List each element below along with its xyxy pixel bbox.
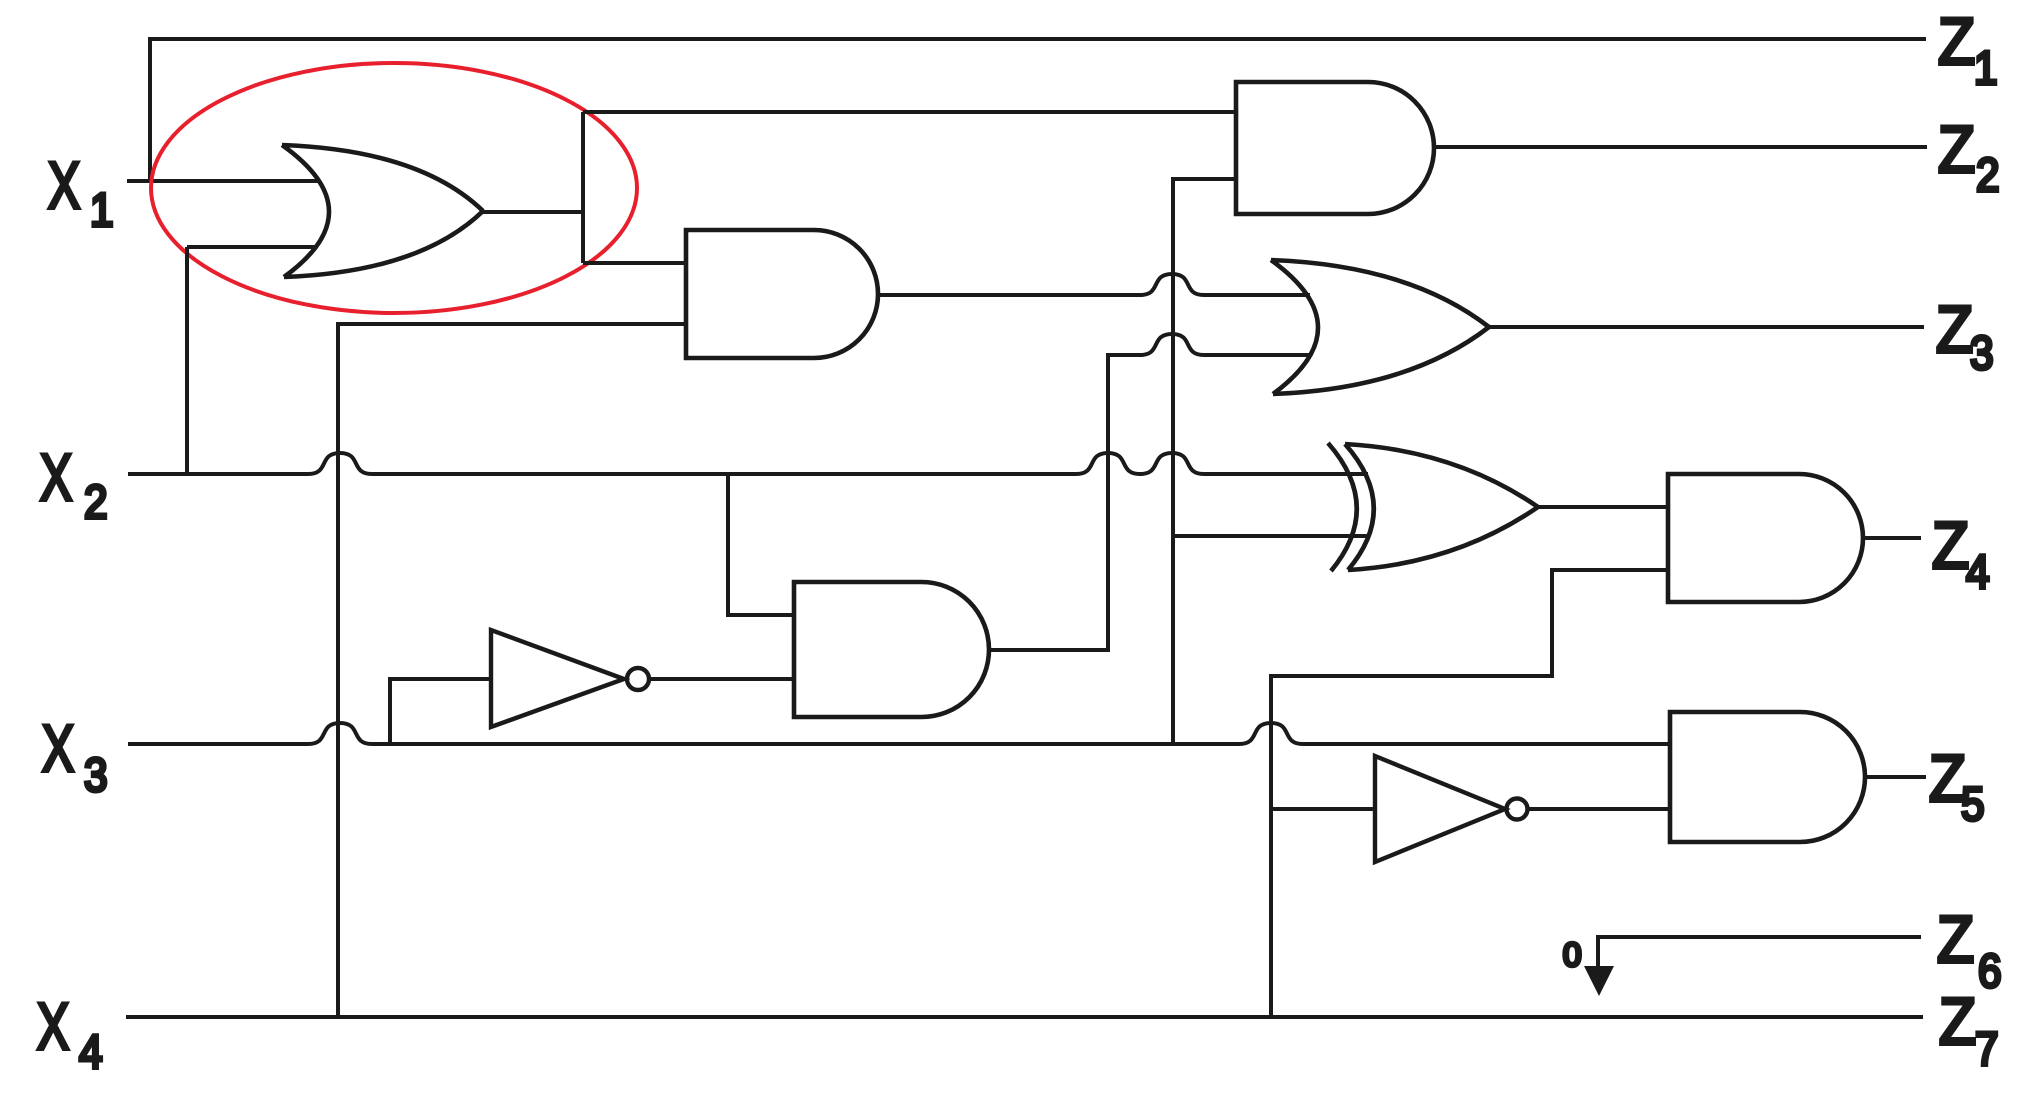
svg-text:X: X — [37, 991, 69, 1064]
svg-text:Z: Z — [1937, 904, 1974, 977]
wire AND1 output to Z2 — [1434, 145, 1927, 149]
svg-text:1: 1 — [90, 185, 114, 237]
label X3 — [42, 713, 74, 786]
svg-text:6: 6 — [1978, 946, 2002, 998]
svg-text:Z: Z — [1936, 294, 1973, 367]
wire XOR output to AND4 input 1 — [1538, 505, 1668, 509]
or-gate OR3 (output Z3) — [1271, 260, 1489, 394]
red highlight ellipse around OR1 — [151, 63, 637, 313]
wire NOT2 output to AND5 input 2 — [1528, 807, 1670, 811]
wire X3 rail with hops — [128, 723, 1670, 744]
wire X4 rail to Z7 — [126, 1015, 1923, 1019]
svg-text:X: X — [40, 442, 72, 515]
svg-text:Z: Z — [1932, 510, 1969, 583]
svg-text:X: X — [42, 713, 74, 786]
wire OR1 output to node — [483, 210, 583, 214]
wire NOT1 output to AND3 input 2 — [649, 677, 794, 681]
svg-text:4: 4 — [1966, 547, 1990, 599]
and-gate AND2 — [686, 230, 878, 358]
wire X2 branch up to OR1 input 2 — [187, 247, 317, 474]
wire X4 branch to NOT2 input — [1271, 807, 1375, 811]
svg-text:1: 1 — [1974, 43, 1998, 95]
wire X3 branch to XOR input 2 — [1173, 534, 1368, 538]
svg-text:3: 3 — [1970, 328, 1994, 380]
label X4 — [37, 991, 69, 1064]
xor-gate XOR1 — [1328, 443, 1538, 571]
label Z6 — [1937, 904, 1974, 977]
wire X2 rail with hops — [128, 453, 1368, 474]
constant 0 source symbol for Z6 — [1584, 937, 1921, 996]
label Z7 — [1939, 986, 1976, 1059]
label Z4 — [1932, 510, 1969, 583]
label Z1 — [1938, 6, 1975, 79]
and-gate AND5 (output Z5) — [1670, 712, 1865, 842]
and-gate AND1 (top, output Z2) — [1236, 82, 1434, 214]
svg-text:5: 5 — [1961, 779, 1985, 831]
wire X3 riser to AND1 input 2 — [1173, 179, 1236, 744]
wire OR3 output to Z3 — [1489, 325, 1924, 329]
label Z2 — [1938, 114, 1975, 187]
svg-text:4: 4 — [79, 1027, 103, 1079]
wire AND2 input 1 from node — [583, 261, 686, 265]
wire X3 branch up to NOT1 input — [390, 679, 491, 744]
wire AND2 output to OR3 input 1 with hop — [878, 274, 1310, 295]
svg-text:Z: Z — [1938, 114, 1975, 187]
wire vertical branch node at x=583 — [581, 112, 585, 263]
or-gate OR1 (circled) — [282, 145, 483, 277]
wire to AND1 input 1 — [583, 110, 1236, 114]
svg-text:3: 3 — [84, 750, 108, 802]
label Z3 — [1936, 294, 1973, 367]
svg-text:7: 7 — [1975, 1024, 1999, 1076]
wire AND4 output to Z4 — [1863, 536, 1921, 540]
wire AND5 output to Z5 — [1865, 775, 1926, 779]
svg-text:X: X — [48, 150, 80, 223]
and-gate AND3 — [794, 582, 989, 717]
label X1 — [48, 150, 80, 223]
svg-text:0: 0 — [1563, 936, 1581, 973]
not-gate NOT1 (inverter) — [491, 630, 649, 727]
svg-text:Z: Z — [1939, 986, 1976, 1059]
svg-text:2: 2 — [84, 477, 108, 529]
not-gate NOT2 (inverter) — [1375, 756, 1528, 862]
wire AND3 output up to OR3 input 2 with hop — [989, 334, 1310, 650]
label Z5 — [1929, 743, 1966, 816]
node X1 input wire — [127, 179, 320, 183]
wire X2 branch down to AND3 input 1 — [728, 474, 794, 615]
svg-text:Z: Z — [1938, 6, 1975, 79]
label X2 — [40, 442, 72, 515]
svg-text:2: 2 — [1976, 150, 2000, 202]
wire: X1 to Z1 top rail — [150, 39, 1926, 181]
and-gate AND4 (output Z4) — [1668, 474, 1863, 602]
wire X4 riser to AND4 input 2 — [1271, 570, 1668, 1017]
wire X4 riser to AND2 input 2 — [338, 324, 686, 1017]
